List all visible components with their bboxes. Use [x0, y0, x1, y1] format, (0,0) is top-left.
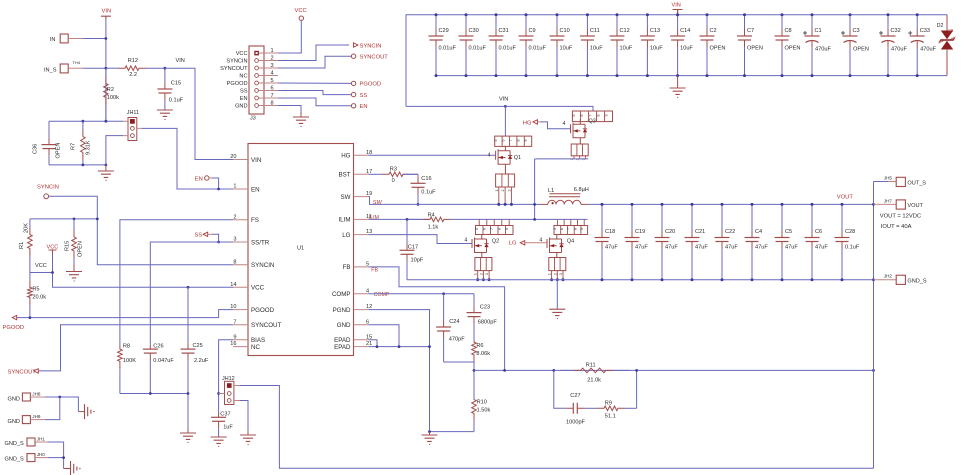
- wire R8/C26/C25 bottoms: [120, 394, 188, 430]
- svg-text:EPAD: EPAD: [334, 344, 351, 351]
- transistor Q1: [496, 146, 511, 170]
- svg-text:C2: C2: [710, 28, 717, 34]
- capacitor C29 0.01uF: [435, 15, 437, 29]
- svg-text:C12: C12: [620, 28, 630, 34]
- wire output sense rail: [873, 182, 875, 469]
- node junction JH9 tie: [58, 396, 61, 399]
- capacitor C16 0.1uF: [417, 174, 419, 176]
- resistor R5 20.0k: [29, 273, 31, 281]
- svg-text:0.047uF: 0.047uF: [153, 358, 174, 364]
- capacitor C11 10uF: [586, 15, 588, 29]
- svg-text:C11: C11: [590, 28, 600, 34]
- svg-text:0.01uF: 0.01uF: [469, 46, 487, 52]
- svg-text:7: 7: [490, 228, 494, 230]
- wire IN_S to VIN rail: [83, 67, 106, 69]
- svg-text:VCC: VCC: [236, 51, 248, 57]
- node junction C26 bottom: [149, 392, 152, 395]
- svg-text:8: 8: [233, 259, 236, 265]
- svg-text:NC: NC: [251, 344, 260, 351]
- svg-text:1000pF: 1000pF: [566, 419, 586, 425]
- transistor Q4 drain comb: [554, 226, 588, 235]
- svg-text:FB: FB: [343, 264, 351, 271]
- svg-text:SYNCIN: SYNCIN: [226, 59, 247, 65]
- svg-text:VOUT: VOUT: [907, 203, 923, 209]
- svg-text:JH11: JH11: [127, 110, 139, 116]
- svg-text:0.1uF: 0.1uF: [421, 189, 436, 195]
- svg-text:9: 9: [505, 228, 509, 230]
- capacitor C1 470uF: [811, 15, 813, 29]
- resistor R3 0: [369, 173, 383, 175]
- wire JH11 pin3 to ground net: [106, 136, 123, 165]
- svg-text:SYNCIN: SYNCIN: [37, 185, 59, 191]
- ground power stage: [549, 309, 565, 318]
- svg-text:1: 1: [495, 190, 499, 192]
- node junction Q2 source pins: [476, 278, 479, 281]
- svg-text:Q4: Q4: [567, 239, 574, 245]
- svg-text:6.8µH: 6.8µH: [574, 187, 589, 193]
- capacitor C31 0.01uF: [495, 15, 497, 29]
- svg-text:C14: C14: [680, 28, 690, 34]
- node junction C16/SW: [417, 203, 420, 206]
- svg-text:R12: R12: [128, 58, 138, 64]
- svg-text:C9: C9: [529, 28, 536, 34]
- capacitor C2 OPEN: [706, 15, 708, 29]
- svg-text:C32: C32: [891, 28, 901, 34]
- svg-text:BST: BST: [338, 172, 350, 179]
- wire FB to comp node: [369, 267, 505, 371]
- svg-text:GND_S: GND_S: [5, 456, 25, 462]
- node junction SS: [217, 241, 220, 244]
- node junction C17 top: [406, 218, 409, 221]
- svg-text:D2: D2: [937, 23, 944, 29]
- connector JH2 GND_S: [874, 279, 897, 281]
- wire C24/R6 bottom tie: [444, 362, 474, 399]
- svg-text:C20: C20: [665, 229, 675, 235]
- wire Q1 drain drop: [504, 106, 506, 136]
- wire BST corner to C16: [403, 173, 418, 175]
- svg-text:7: 7: [588, 115, 592, 117]
- node junction sense rail: [872, 369, 875, 372]
- wire SW pin19 to power stage: [369, 197, 541, 205]
- svg-text:U1: U1: [297, 246, 304, 252]
- svg-text:R10: R10: [477, 400, 487, 406]
- J3 pin stubs and numbers: [259, 52, 278, 54]
- svg-text:4: 4: [271, 70, 274, 76]
- svg-text:C26: C26: [153, 344, 163, 350]
- transistor Q1 source lead: [504, 169, 506, 174]
- ground R15: [73, 264, 75, 272]
- resistor R8 100K: [119, 368, 121, 393]
- svg-text:SYNCOUT: SYNCOUT: [251, 322, 281, 329]
- capacitor C33 470uF: [916, 15, 918, 29]
- transistor Q4 source comb: [549, 258, 566, 271]
- svg-text:HG: HG: [341, 153, 350, 160]
- svg-text:R5: R5: [32, 287, 39, 293]
- svg-text:R9: R9: [605, 401, 612, 407]
- wire VIN to Q3 drain comb: [505, 106, 593, 111]
- node junction IN/VIN: [105, 37, 108, 40]
- node junction R7 bottom: [82, 164, 85, 167]
- wire PGND pin12 down: [369, 310, 430, 432]
- svg-text:VIN: VIN: [251, 157, 261, 164]
- wire VIN feed to power stage: [406, 105, 505, 107]
- svg-text:C33: C33: [920, 28, 930, 34]
- resistor R9 51.1: [590, 407, 597, 409]
- node junction C27 branch left: [552, 369, 555, 372]
- svg-text:470uF: 470uF: [891, 47, 907, 53]
- node junction C25/VCC: [187, 286, 190, 289]
- svg-text:ILIM: ILIM: [369, 215, 379, 221]
- wire R1/R15 top tie: [30, 218, 97, 220]
- svg-text:SYNCIN: SYNCIN: [360, 43, 382, 49]
- svg-text:C5: C5: [785, 229, 792, 235]
- chassis ground GND: [85, 404, 91, 419]
- node junction SYNCIN/R tie: [96, 218, 99, 221]
- svg-text:0.01uF: 0.01uF: [529, 46, 547, 52]
- svg-text:C19: C19: [635, 229, 645, 235]
- resistor R4 1.1k: [407, 218, 423, 220]
- capacitor C24 470pF: [443, 294, 445, 320]
- svg-text:C36: C36: [33, 144, 39, 154]
- capacitor C26 0.047uF: [149, 360, 151, 393]
- wire J3 pin6 to SS port: [278, 91, 351, 95]
- capacitor C19 47uF: [631, 204, 633, 230]
- svg-text:1.1k: 1.1k: [428, 224, 439, 230]
- resistor R10 1.50k: [473, 421, 475, 432]
- connector JH7 VOUT: [874, 203, 897, 205]
- svg-text:C31: C31: [499, 28, 509, 34]
- wire JH12 pin1 to GND_S loop: [240, 386, 874, 469]
- svg-text:7: 7: [233, 319, 236, 325]
- svg-text:PGND: PGND: [333, 307, 351, 314]
- svg-text:IN_S: IN_S: [44, 67, 57, 73]
- wire ILIM to R4: [369, 218, 431, 220]
- connector IN: [60, 34, 68, 43]
- capacitor C32 470uF: [887, 15, 889, 29]
- svg-text:5: 5: [494, 140, 498, 142]
- node junction C36 top: [82, 120, 85, 123]
- svg-text:0: 0: [392, 178, 395, 184]
- svg-text:51.1: 51.1: [605, 413, 616, 419]
- node junction Q4 source pins: [550, 278, 553, 281]
- svg-text:C21: C21: [695, 229, 705, 235]
- resistor R15 OPEN: [73, 219, 75, 230]
- transistor Q1 drain comb: [495, 136, 532, 146]
- node junction FB drop: [503, 369, 506, 372]
- wire GND pin6: [369, 325, 400, 347]
- svg-text:4: 4: [563, 121, 566, 127]
- svg-text:JH8: JH8: [32, 391, 41, 396]
- capacitor C6 47uF: [811, 204, 813, 230]
- svg-text:6: 6: [502, 140, 506, 142]
- transistor Q2 drain comb: [476, 226, 514, 235]
- svg-text:R15: R15: [65, 241, 71, 251]
- svg-text:C27: C27: [570, 393, 580, 399]
- wire J3 pin5 to PGOOD port: [278, 82, 351, 84]
- svg-text:C15: C15: [171, 80, 181, 86]
- svg-text:VOUT = 12VDC: VOUT = 12VDC: [880, 213, 921, 219]
- node junction C24 top: [442, 292, 445, 295]
- capacitor C7 OPEN: [744, 15, 746, 29]
- svg-text:10uF: 10uF: [560, 46, 573, 52]
- svg-text:470uF: 470uF: [815, 47, 831, 53]
- svg-text:VIN: VIN: [499, 96, 508, 102]
- svg-text:8: 8: [516, 140, 520, 142]
- svg-text:47uF: 47uF: [785, 245, 798, 251]
- svg-text:9: 9: [604, 115, 608, 117]
- svg-text:7: 7: [271, 93, 274, 99]
- svg-text:R6: R6: [476, 343, 483, 349]
- wire J3 pin8 to ground: [278, 106, 301, 113]
- connector J3: [249, 46, 264, 114]
- capacitor C12 10uF: [616, 15, 618, 29]
- svg-text:VCC: VCC: [295, 8, 307, 14]
- transistor Q2: [472, 234, 487, 258]
- svg-text:9: 9: [233, 334, 236, 340]
- U1 right pin stubs: [354, 155, 369, 346]
- svg-text:2.2uF: 2.2uF: [194, 358, 209, 364]
- node junction IN_S/VIN/R12/R2: [105, 67, 108, 70]
- ground J3: [293, 117, 309, 126]
- svg-text:9: 9: [524, 140, 528, 142]
- wire HG pin18 to Q1 gate: [369, 154, 496, 156]
- svg-text:GND: GND: [235, 104, 247, 110]
- svg-text:C4: C4: [755, 229, 762, 235]
- svg-text:SYNCIN: SYNCIN: [251, 262, 274, 269]
- node junction Q1 drain feed: [504, 105, 507, 108]
- svg-text:OPEN: OPEN: [710, 46, 726, 52]
- wire FS net to R8: [120, 220, 233, 345]
- net port PGOOD (top): [351, 81, 355, 85]
- svg-text:JH9: JH9: [32, 414, 41, 419]
- wire VCC rail to U1 pin14: [53, 254, 234, 288]
- wire PGOOD to U1 pin10: [17, 310, 233, 318]
- svg-text:47uF: 47uF: [665, 245, 678, 251]
- wire J3 pin2 to SYNCIN port: [278, 45, 349, 61]
- capacitor C22 47uF: [721, 204, 723, 230]
- svg-text:2.2: 2.2: [129, 72, 137, 78]
- svg-text:10pF: 10pF: [411, 258, 424, 264]
- svg-text:10uF: 10uF: [650, 46, 663, 52]
- svg-text:SW: SW: [373, 200, 383, 206]
- op-amp/controller U1 body: [248, 144, 354, 356]
- svg-text:C17: C17: [408, 244, 418, 250]
- svg-text:GND: GND: [337, 322, 351, 329]
- svg-text:GND_S: GND_S: [5, 441, 25, 447]
- transistor Q3 source lead: [579, 143, 581, 145]
- svg-text:100K: 100K: [123, 358, 136, 364]
- capacitor C30 0.01uF: [465, 15, 467, 29]
- resistor R6 8.06k: [472, 341, 477, 362]
- svg-text:20.0k: 20.0k: [32, 294, 46, 300]
- svg-text:8: 8: [596, 115, 600, 117]
- svg-text:100k: 100k: [107, 95, 119, 101]
- transistor Q2 source comb: [475, 258, 492, 271]
- svg-text:16: 16: [230, 341, 236, 347]
- svg-text:1: 1: [548, 273, 552, 275]
- node junction R5 bottom: [29, 316, 32, 319]
- node junction JH0/JH1: [62, 456, 65, 459]
- svg-text:9.31K: 9.31K: [86, 140, 92, 155]
- wire JH0 to chassis: [48, 458, 64, 469]
- wire PGND bus: [407, 279, 874, 281]
- wire COMP to C24/C23: [369, 293, 475, 295]
- node junction GND/JH2: [872, 278, 875, 281]
- svg-text:1uF: 1uF: [223, 424, 233, 430]
- svg-text:SYNCOUT: SYNCOUT: [220, 66, 248, 72]
- svg-text:VIN: VIN: [672, 3, 681, 9]
- svg-text:47uF: 47uF: [605, 245, 618, 251]
- capacitor C9 0.01uF: [525, 15, 527, 29]
- wire R1 bottom to VCC: [30, 272, 53, 274]
- node junction ground stub EPAD/R10: [428, 430, 431, 433]
- wire C27 branch left: [554, 370, 566, 408]
- svg-text:COMP: COMP: [374, 292, 390, 298]
- svg-text:Q2: Q2: [492, 239, 499, 245]
- node junction SW column: [533, 203, 536, 206]
- svg-text:3: 3: [559, 273, 563, 275]
- capacitor C15 0.1uF: [164, 68, 166, 82]
- wire JH12 pin3 to ground: [240, 401, 248, 432]
- node junction VCC/R1/R5: [51, 271, 54, 274]
- svg-text:1: 1: [271, 48, 274, 54]
- wire input cap bank top bus: [406, 15, 947, 107]
- svg-text:JH2: JH2: [884, 274, 893, 279]
- svg-text:C7: C7: [747, 28, 754, 34]
- net port SYNCIN (right): [354, 43, 359, 47]
- capacitor C4 47uF: [751, 204, 753, 230]
- svg-text:C23: C23: [480, 305, 490, 311]
- connector IN_S (JH4): [60, 64, 68, 73]
- svg-text:PGOOD: PGOOD: [360, 82, 382, 88]
- svg-text:NC: NC: [239, 74, 247, 80]
- svg-text:SS: SS: [195, 232, 203, 238]
- transistor Q3 source comb: [571, 144, 588, 156]
- ground C25 net: [187, 429, 189, 433]
- wire JH9 to JH8 net: [45, 397, 60, 420]
- capacitor C20 47uF: [661, 204, 663, 230]
- svg-text:R4: R4: [428, 212, 435, 218]
- svg-text:0.01uF: 0.01uF: [499, 46, 517, 52]
- svg-text:3: 3: [233, 237, 236, 243]
- svg-text:2: 2: [271, 55, 274, 61]
- svg-text:47uF: 47uF: [755, 245, 768, 251]
- node junction EPAD ties: [376, 345, 379, 348]
- node junction VOUT/JH7: [872, 203, 875, 206]
- svg-text:OUT_S: OUT_S: [907, 180, 926, 186]
- svg-text:C13: C13: [650, 28, 660, 34]
- U1 left pin stubs: [233, 160, 248, 347]
- wire SYNCIN to U1 pin8: [49, 196, 233, 264]
- svg-text:C28: C28: [845, 229, 855, 235]
- node junction C25 bottom: [187, 392, 190, 395]
- svg-text:2: 2: [233, 214, 236, 220]
- svg-text:6800pF: 6800pF: [478, 319, 498, 325]
- svg-text:SS: SS: [240, 89, 248, 95]
- svg-text:R3: R3: [390, 166, 397, 172]
- node junction R2 bottom: [105, 120, 108, 123]
- svg-text:C29: C29: [439, 28, 449, 34]
- ground C37: [211, 437, 227, 446]
- svg-text:GND_S: GND_S: [907, 278, 927, 284]
- svg-text:ILIM: ILIM: [338, 217, 350, 224]
- svg-text:JH7: JH7: [884, 198, 893, 203]
- svg-text:TH4: TH4: [73, 60, 81, 65]
- node junction Q1 source pins: [497, 203, 500, 206]
- svg-text:R2: R2: [107, 87, 114, 93]
- svg-text:GND: GND: [8, 419, 20, 425]
- svg-text:5: 5: [572, 115, 576, 117]
- svg-text:21.0k: 21.0k: [587, 377, 601, 383]
- wire HG port to Q3 gate: [540, 122, 571, 129]
- svg-text:IOUT = 40A: IOUT = 40A: [881, 224, 912, 230]
- node junction JH12 pin2 / C37: [217, 392, 220, 395]
- svg-text:7: 7: [567, 228, 571, 230]
- resistor R11 21.0k: [560, 369, 574, 371]
- svg-text:PGOOD: PGOOD: [227, 81, 248, 87]
- svg-text:FB: FB: [371, 267, 378, 273]
- svg-text:47uF: 47uF: [725, 245, 738, 251]
- svg-text:SS: SS: [360, 93, 368, 99]
- svg-text:8.06k: 8.06k: [476, 351, 490, 357]
- chassis ground GND_S: [71, 461, 77, 475]
- svg-text:1: 1: [233, 184, 236, 190]
- wire R9 to R11 right node: [636, 370, 638, 408]
- svg-text:6: 6: [483, 228, 487, 230]
- svg-text:C6: C6: [815, 229, 822, 235]
- svg-text:C22: C22: [725, 229, 735, 235]
- capacitor C27 1000pF: [565, 407, 567, 409]
- capacitor C3 OPEN: [849, 15, 851, 29]
- wire JH11 pin2 to EN net: [142, 128, 233, 189]
- svg-text:C25: C25: [193, 343, 203, 349]
- svg-text:C3: C3: [853, 28, 860, 34]
- wire input cap bank bottom bus: [436, 75, 947, 77]
- svg-text:JH0: JH0: [37, 452, 46, 457]
- svg-text:LG: LG: [342, 232, 350, 239]
- svg-text:OPEN: OPEN: [853, 47, 869, 53]
- svg-text:VCC: VCC: [251, 285, 265, 292]
- svg-text:VCC: VCC: [47, 244, 59, 250]
- svg-text:10uF: 10uF: [680, 46, 693, 52]
- wire SYNCOUT to U1 pin7: [38, 325, 233, 371]
- svg-text:HG: HG: [523, 120, 532, 126]
- svg-text:R7: R7: [71, 143, 77, 150]
- wire LG port to Q4 gate: [525, 242, 547, 244]
- svg-text:Q1: Q1: [514, 155, 521, 161]
- wire FB node rail to VOUT sense: [474, 369, 874, 371]
- transistor Q1 source comb: [496, 174, 515, 187]
- resistor R2 100k: [105, 68, 107, 76]
- svg-text:EN: EN: [360, 104, 368, 110]
- svg-text:6: 6: [271, 85, 274, 91]
- svg-text:OPEN: OPEN: [747, 46, 763, 52]
- svg-text:2: 2: [553, 273, 557, 275]
- svg-text:3: 3: [507, 189, 511, 191]
- svg-text:C18: C18: [605, 229, 615, 235]
- svg-text:1.50k: 1.50k: [477, 408, 491, 414]
- wire JH1 to GND_S tie: [48, 442, 64, 458]
- node junction R15 top: [73, 218, 76, 221]
- svg-text:PGOOD: PGOOD: [3, 325, 25, 331]
- ground EPAD/R10: [422, 435, 438, 444]
- svg-text:LG: LG: [509, 241, 517, 247]
- wire EPAD pin15: [369, 340, 378, 347]
- wire VCC to J3 pin1: [278, 20, 301, 53]
- svg-text:R8: R8: [123, 344, 130, 350]
- capacitor C36 OPEN: [48, 121, 50, 137]
- wire LG pin13 to Q2 gate: [369, 235, 473, 244]
